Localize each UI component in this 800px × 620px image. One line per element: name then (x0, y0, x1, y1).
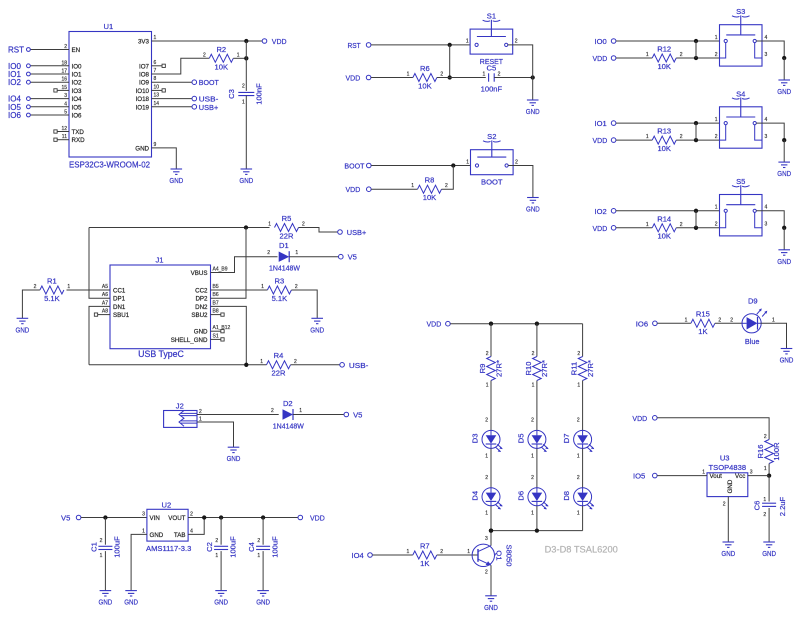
U1 pin 18 IO0 with net label IO0 (8, 60, 82, 71)
diode D1 1N4148W (267, 241, 301, 273)
wire C2 bottom (220, 551, 222, 591)
ground (R1) (16, 318, 30, 334)
svg-text:VDD: VDD (310, 514, 325, 523)
svg-text:R15: R15 (696, 310, 710, 319)
svg-text:VDD: VDD (632, 414, 647, 423)
svg-text:2: 2 (577, 475, 580, 481)
ground (C1) (99, 591, 113, 607)
svg-text:GND: GND (194, 329, 208, 336)
svg-text:RESET: RESET (480, 57, 504, 66)
svg-text:Blue: Blue (745, 337, 760, 346)
transistor Q1 S8050 (472, 536, 514, 576)
U1 pin 13 IO18 wire to USB- (136, 93, 192, 104)
push-button S3 (715, 7, 768, 66)
svg-text:GND: GND (526, 205, 540, 214)
svg-text:C3: C3 (227, 89, 236, 99)
resistor R5 22R (268, 214, 305, 241)
svg-text:D3-D8 TSAL6200: D3-D8 TSAL6200 (545, 544, 618, 554)
svg-text:2: 2 (532, 351, 535, 357)
junction S4 pin3 (782, 138, 786, 142)
svg-text:IO1: IO1 (595, 119, 607, 128)
U1 pin 6 IO7 no-connect stub (139, 60, 165, 71)
svg-text:V5: V5 (353, 411, 362, 420)
svg-text:1: 1 (577, 383, 580, 389)
svg-text:R9: R9 (478, 364, 487, 374)
svg-text:R1: R1 (47, 276, 57, 285)
svg-text:1: 1 (764, 466, 767, 472)
svg-text:6: 6 (154, 60, 157, 66)
svg-text:3: 3 (765, 134, 768, 140)
J1 pin B7 DN2 wire (195, 300, 246, 364)
connector J1 USB TypeC body (110, 256, 211, 360)
svg-text:1: 1 (715, 205, 718, 211)
junction rail col2 (535, 322, 539, 326)
svg-text:2: 2 (730, 317, 733, 323)
svg-text:VIN: VIN (150, 515, 160, 522)
wire R13 to node (676, 139, 719, 141)
svg-text:D1: D1 (279, 241, 289, 250)
port USB+ (U1) (192, 103, 219, 112)
wire V5 to U2 VIN (81, 517, 147, 519)
svg-text:2: 2 (515, 39, 518, 45)
wire USB D- bottom (89, 364, 267, 366)
wire col2 vertical top (536, 324, 538, 357)
wire IO6 to R15 (657, 322, 691, 324)
port IO0 (S3) (595, 37, 616, 46)
svg-text:ESP32C3-WROOM-02: ESP32C3-WROOM-02 (69, 160, 151, 169)
svg-text:R7: R7 (420, 541, 430, 550)
wire J2 pin2 to D2 (197, 414, 279, 416)
svg-text:2: 2 (190, 512, 193, 518)
wire IO2 to S5 pin1 (616, 210, 724, 212)
svg-text:2: 2 (257, 538, 260, 544)
svg-text:A1_B12: A1_B12 (213, 325, 231, 331)
svg-text:SBU2: SBU2 (191, 312, 208, 319)
wire VDD to R12 (616, 57, 652, 59)
svg-text:EN: EN (72, 47, 81, 54)
label D3-D8 TSAL6200 (545, 544, 618, 554)
svg-text:4: 4 (765, 117, 768, 123)
svg-text:2: 2 (723, 502, 726, 508)
wire C6 to ground (768, 508, 770, 542)
U1 pin 5 IO6 with net label IO6 (8, 110, 82, 121)
svg-text:GND: GND (762, 549, 776, 558)
svg-text:RXD: RXD (72, 137, 86, 144)
svg-text:1: 1 (257, 553, 260, 559)
port VDD (U2 out) (298, 514, 325, 523)
svg-text:2: 2 (34, 284, 37, 290)
svg-text:5.1K: 5.1K (272, 294, 288, 303)
svg-text:10K: 10K (215, 62, 229, 71)
U1 pin 14 IO19 wire to USB+ (136, 101, 192, 112)
svg-text:9: 9 (154, 142, 157, 148)
U1 pin 11 RXD no-connect stub (54, 134, 85, 144)
svg-text:SHELL_GND: SHELL_GND (171, 337, 208, 344)
svg-text:R11: R11 (570, 362, 579, 375)
svg-text:2: 2 (271, 408, 274, 414)
resistor R8 10K (411, 176, 448, 202)
svg-text:J2: J2 (176, 401, 184, 410)
svg-text:VDD: VDD (346, 74, 361, 83)
svg-text:S1: S1 (213, 333, 219, 339)
svg-text:1: 1 (215, 553, 218, 559)
wire R2 to VDD line (233, 57, 246, 59)
svg-text:S5: S5 (736, 177, 745, 186)
svg-text:GND: GND (150, 532, 164, 539)
wire C4 bottom (262, 551, 264, 591)
port VDD (R14) (593, 224, 616, 233)
push-button S2 BOOT (466, 132, 518, 186)
svg-text:S1: S1 (487, 12, 496, 21)
svg-text:R10: R10 (524, 362, 533, 376)
svg-text:IO18: IO18 (136, 96, 150, 103)
svg-text:GND: GND (777, 169, 791, 178)
svg-text:1: 1 (237, 52, 240, 58)
svg-text:CC2: CC2 (195, 288, 208, 295)
junction C5/GND node (531, 75, 535, 79)
svg-text:2: 2 (203, 52, 206, 58)
svg-text:GND: GND (721, 549, 735, 558)
svg-text:AMS1117-3.3: AMS1117-3.3 (146, 544, 191, 553)
wire R3 to ground (291, 290, 317, 318)
resistor R16 100R (756, 434, 781, 472)
port BOOT (192, 78, 219, 87)
wire C1 bottom (104, 551, 106, 591)
port VDD (R6) (346, 74, 371, 83)
svg-text:2: 2 (577, 351, 580, 357)
port V5 (D1) (339, 253, 357, 262)
junction R6/C5 node (448, 75, 452, 79)
svg-text:GND: GND (727, 479, 734, 493)
svg-text:4: 4 (765, 35, 768, 41)
U1 pin 1 3V3 wire to VDD (138, 35, 262, 46)
LED D3 TSAL6200 (471, 430, 503, 452)
junction VDD row (694, 226, 698, 230)
svg-text:2: 2 (485, 475, 488, 481)
svg-text:2: 2 (295, 284, 298, 290)
resistor R1 5.1K (34, 276, 71, 303)
wire R5 to USB+ port (299, 228, 338, 233)
wire U3 Vcc to node (748, 475, 769, 477)
svg-text:2: 2 (718, 317, 721, 323)
svg-text:14: 14 (154, 101, 160, 107)
svg-text:1: 1 (411, 183, 414, 189)
svg-text:2: 2 (531, 418, 534, 424)
svg-text:D5: D5 (517, 434, 526, 444)
port USB- (J1) (340, 361, 369, 370)
wire S4 to ground (783, 140, 785, 162)
wire VDD to R8 (371, 188, 417, 190)
svg-text:Vout: Vout (710, 473, 723, 480)
svg-text:V5: V5 (61, 514, 70, 523)
svg-text:D7: D7 (562, 434, 571, 444)
svg-text:A7: A7 (102, 300, 108, 306)
wire IO1 to S4 pin1 (616, 122, 724, 124)
port VDD (U3) (632, 414, 657, 423)
wire col1 vertical top (490, 324, 492, 357)
svg-text:TXD: TXD (72, 129, 85, 136)
wire R6 to node (437, 77, 450, 79)
U1 pin 4 IO5 with net label IO5 (8, 101, 82, 112)
svg-text:IO6: IO6 (636, 319, 648, 328)
svg-text:B8: B8 (213, 309, 219, 315)
junction C4 top (261, 515, 265, 519)
LED D5 TSAL6200 (517, 430, 549, 452)
svg-text:IO0: IO0 (595, 37, 607, 46)
port USB+ (J1) (338, 228, 367, 237)
svg-text:1: 1 (485, 454, 488, 460)
svg-text:IO8: IO8 (139, 72, 150, 79)
svg-text:2: 2 (267, 250, 270, 256)
svg-text:10K: 10K (418, 81, 432, 90)
svg-text:DN1: DN1 (113, 304, 126, 311)
wire R4 to USB- port (291, 364, 340, 366)
svg-text:B5: B5 (213, 284, 219, 290)
svg-text:C4: C4 (247, 542, 256, 552)
svg-text:R16: R16 (756, 445, 765, 459)
port VDD (top) (262, 37, 287, 46)
wire C3 to ground (245, 96, 247, 169)
svg-text:GND: GND (526, 107, 540, 116)
wire TAB up (188, 518, 204, 535)
wire D1 to V5 (289, 256, 338, 258)
svg-text:IO5: IO5 (633, 472, 645, 481)
diode D2 1N4148W (271, 399, 305, 430)
svg-text:Vcc: Vcc (735, 473, 745, 480)
op-amp U1 ESP32C3-WROOM-02 module body (69, 22, 152, 169)
svg-text:7: 7 (154, 68, 157, 74)
U1 pin 12 TXD no-connect stub (54, 126, 85, 136)
svg-text:IO0: IO0 (72, 63, 83, 70)
svg-text:1: 1 (485, 511, 488, 517)
ground (C6) (762, 542, 776, 558)
junction VDD row (694, 56, 698, 60)
svg-text:5: 5 (64, 110, 67, 116)
J1 pin A8 SBU1 stub (94, 309, 129, 320)
svg-text:1: 1 (261, 284, 264, 290)
svg-text:1K: 1K (420, 559, 429, 568)
svg-text:3: 3 (750, 470, 753, 476)
svg-text:1: 1 (763, 497, 766, 503)
svg-text:2: 2 (498, 71, 501, 77)
port VDD (R12) (593, 54, 616, 63)
svg-text:3V3: 3V3 (138, 39, 150, 46)
U1 pin 9 GND wire (135, 142, 176, 169)
svg-text:GND: GND (135, 145, 149, 152)
svg-text:10: 10 (154, 84, 160, 90)
regulator U2 AMS1117-3.3 body (142, 500, 193, 553)
svg-text:3: 3 (765, 222, 768, 228)
svg-text:D2: D2 (283, 399, 293, 408)
svg-text:2: 2 (764, 434, 767, 440)
resistor R7 1K (407, 541, 444, 568)
wire VDD to R13 (616, 139, 652, 141)
svg-text:IO5: IO5 (72, 104, 83, 111)
svg-text:2: 2 (100, 538, 103, 544)
wire D6 cathode (531, 506, 537, 531)
port IO6 (636, 319, 657, 328)
svg-text:IO4: IO4 (352, 551, 364, 560)
svg-text:100nF: 100nF (254, 83, 263, 105)
svg-text:USB-: USB- (349, 361, 369, 370)
svg-text:2: 2 (715, 222, 718, 228)
svg-text:2: 2 (715, 134, 718, 140)
wire S5 to ground (783, 228, 785, 250)
svg-text:1: 1 (577, 511, 580, 517)
svg-text:1: 1 (486, 383, 489, 389)
svg-text:2: 2 (64, 44, 67, 50)
svg-text:1: 1 (407, 72, 410, 78)
svg-text:11: 11 (62, 134, 67, 140)
U1 pin 8 IO9 wire to BOOT (139, 76, 192, 87)
svg-text:V5: V5 (348, 253, 357, 262)
svg-text:27R*: 27R* (586, 360, 595, 377)
svg-text:SBU1: SBU1 (113, 312, 130, 319)
svg-text:IO2: IO2 (8, 78, 21, 87)
svg-text:1: 1 (685, 317, 688, 323)
svg-text:GND: GND (124, 598, 138, 607)
svg-text:C1: C1 (90, 542, 99, 552)
port V5 (U2 input) (61, 514, 81, 523)
wire VDD rail top (450, 323, 582, 325)
capacitor C4 100uF (247, 536, 279, 559)
svg-text:1: 1 (260, 359, 263, 365)
wire D4 cathode (485, 506, 491, 531)
svg-text:RST: RST (348, 41, 362, 50)
ground (U2) (124, 591, 138, 607)
ground (C4) (256, 591, 270, 607)
svg-text:R13: R13 (657, 127, 671, 136)
wire C4 top (262, 518, 264, 545)
wire RST node vertical (449, 45, 451, 78)
svg-text:10K: 10K (657, 144, 671, 153)
svg-text:2: 2 (515, 159, 518, 165)
ground (R3) (310, 318, 324, 334)
svg-text:12: 12 (61, 126, 67, 132)
capacitor C6 2.2uF (752, 496, 787, 518)
svg-text:2: 2 (445, 183, 448, 189)
svg-text:2: 2 (680, 222, 683, 228)
svg-text:VDD: VDD (427, 320, 442, 329)
svg-text:GND: GND (310, 325, 324, 334)
port BOOT (S2 input) (344, 162, 371, 171)
wire D8 cathode (577, 506, 583, 531)
wire IO4 to R7 (372, 554, 412, 556)
svg-text:GND: GND (777, 87, 791, 96)
svg-text:2: 2 (577, 418, 580, 424)
svg-text:U2: U2 (162, 500, 172, 509)
svg-text:1K: 1K (698, 327, 707, 336)
junction IO0 row (694, 39, 698, 43)
svg-text:D9: D9 (748, 296, 758, 305)
junction rail col1 (489, 322, 493, 326)
wire D9 to ground (761, 323, 787, 348)
junction D+ node (244, 225, 248, 229)
svg-text:IO7: IO7 (139, 63, 150, 70)
J1 pin A6 DP1 wire up (89, 228, 126, 303)
wire U2 GND to ground (131, 534, 147, 590)
junction collector/rail (489, 528, 493, 532)
svg-text:3: 3 (485, 536, 488, 542)
resistor R2 10K (203, 45, 240, 72)
wire C1 top (104, 518, 106, 545)
ground (S3) (777, 80, 791, 96)
svg-text:2: 2 (485, 570, 488, 576)
junction C1 top (103, 515, 107, 519)
port VDD (R8) (346, 185, 372, 194)
wire D5 cathode to D6 (531, 448, 537, 487)
svg-text:B6: B6 (213, 292, 219, 298)
resistor R13 10K (646, 127, 683, 153)
svg-text:IO10: IO10 (136, 88, 150, 95)
U1 pin 3 IO4 with net label IO4 (8, 93, 82, 104)
port IO4 (352, 551, 373, 560)
resistor R9 27R (478, 351, 503, 389)
junction TAB/VOUT (202, 515, 206, 519)
ground (U3) (721, 542, 735, 558)
wire R15 to D9 (715, 317, 743, 323)
svg-text:R14: R14 (657, 214, 671, 223)
wire R8 up to BOOT node (442, 166, 454, 190)
svg-text:100uF: 100uF (228, 536, 237, 558)
wire LED bottom rail (491, 530, 583, 532)
wire S5 pin4 down (756, 211, 784, 228)
svg-text:17: 17 (61, 69, 67, 75)
wire R14 to node (676, 227, 719, 229)
capacitor C2 100uF (205, 536, 237, 559)
svg-text:VDD: VDD (593, 54, 608, 63)
resistor R3 5.1K (261, 276, 298, 303)
J1 pin B5 CC2 wire (195, 284, 267, 295)
svg-text:1: 1 (466, 39, 469, 45)
port IO2 (S5) (595, 207, 616, 216)
svg-text:8: 8 (154, 76, 157, 82)
junction D- node (244, 363, 248, 367)
svg-text:GND: GND (99, 598, 113, 607)
svg-text:10K: 10K (423, 193, 437, 202)
svg-text:1: 1 (715, 117, 718, 123)
svg-text:IO2: IO2 (595, 207, 607, 216)
svg-text:100uF: 100uF (113, 536, 122, 558)
svg-text:A5: A5 (102, 284, 108, 290)
svg-text:IO3: IO3 (72, 88, 83, 95)
svg-text:2: 2 (680, 134, 683, 140)
wire VDD vertical to C3 (245, 41, 247, 91)
wire R12 to node (676, 57, 719, 59)
svg-text:DP2: DP2 (195, 296, 208, 303)
J1 pin A7 DN1 wire down (89, 300, 126, 364)
svg-text:2: 2 (302, 222, 305, 228)
port VDD (LED matrix) (427, 320, 451, 329)
svg-text:USB+: USB+ (347, 228, 367, 237)
wire C5 to GND node (494, 77, 533, 79)
wire D3 anode (485, 381, 491, 431)
wire D7 cathode to D8 (577, 448, 583, 487)
svg-text:2: 2 (486, 351, 489, 357)
svg-text:100R: 100R (772, 442, 781, 461)
svg-text:VDD: VDD (272, 37, 287, 46)
svg-text:1N4148W: 1N4148W (269, 264, 301, 273)
svg-text:U1: U1 (104, 22, 114, 31)
port VDD (R13) (593, 136, 616, 145)
wire S3 pin4 down (756, 41, 784, 58)
svg-text:DP1: DP1 (113, 296, 126, 303)
svg-text:IO4: IO4 (72, 96, 83, 103)
capacitor C3 100nF (227, 83, 263, 106)
svg-text:2: 2 (680, 52, 683, 58)
svg-text:1: 1 (268, 222, 271, 228)
junction R2/VDD line (244, 56, 248, 60)
